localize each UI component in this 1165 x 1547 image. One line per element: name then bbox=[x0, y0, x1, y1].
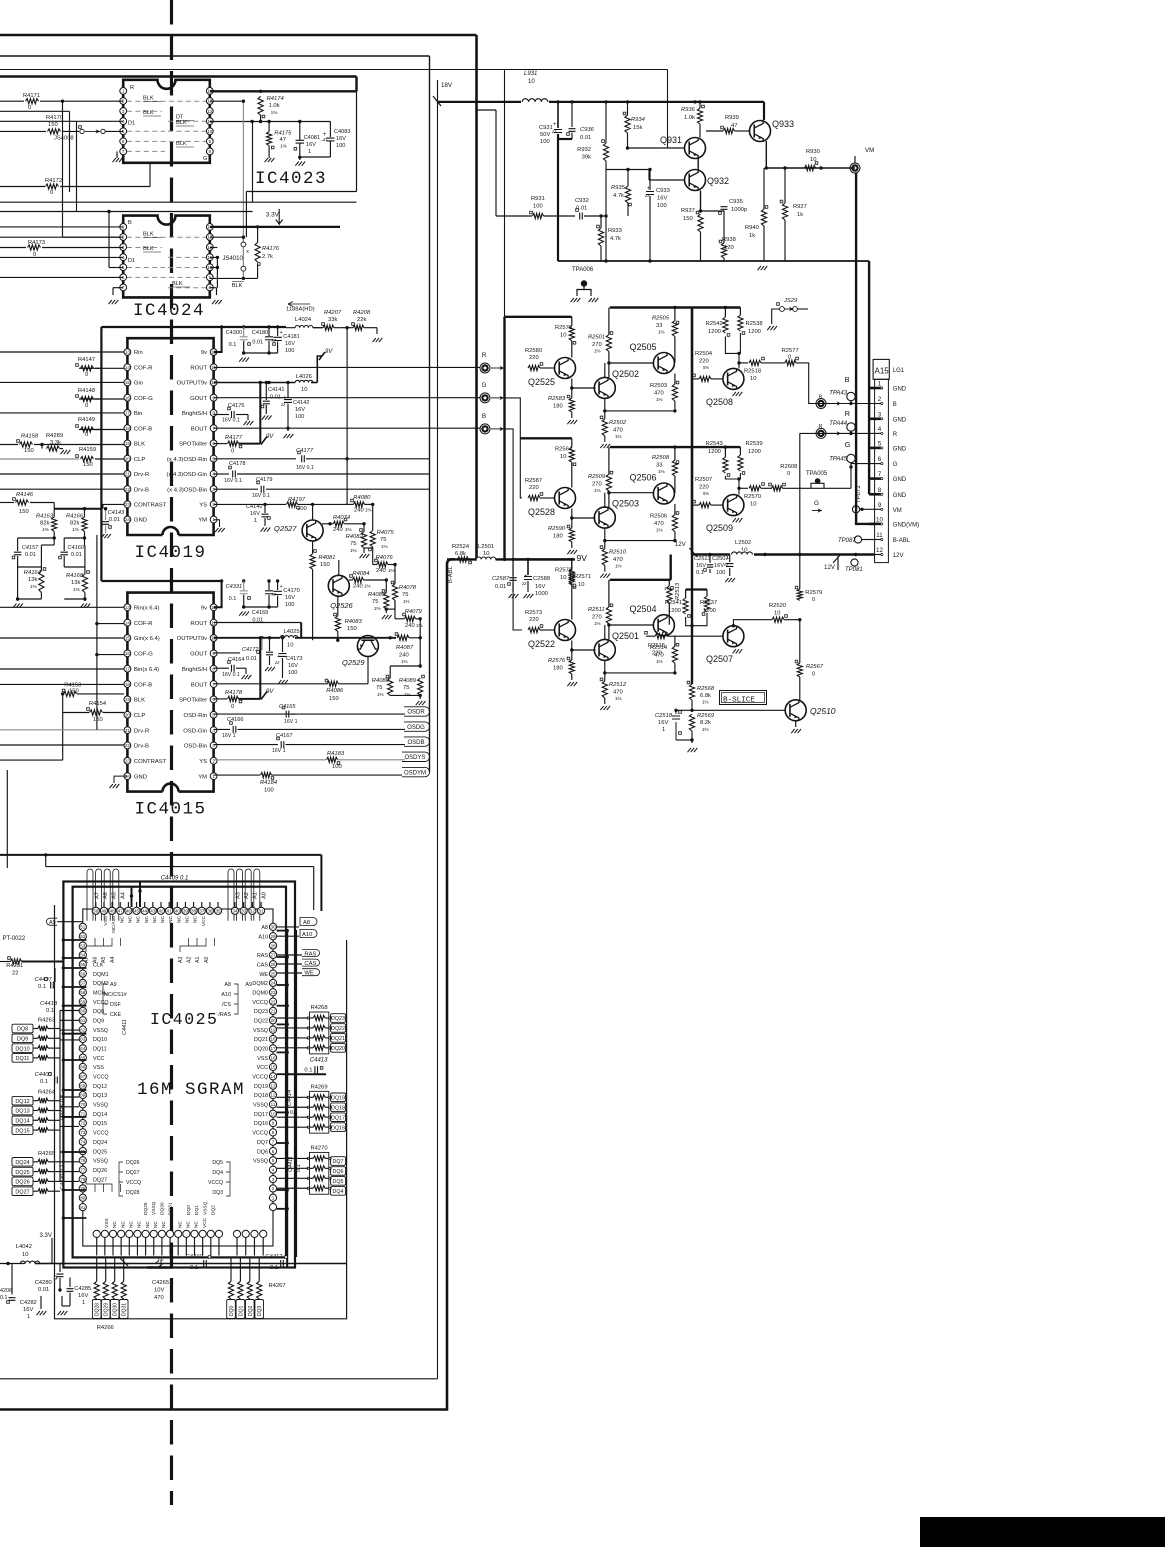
wire top bus drops bbox=[131, 887, 133, 907]
wire input bbox=[0, 351, 124, 353]
wire GOUT long wire bbox=[214, 397, 480, 399]
svg-text:C4181: C4181 bbox=[283, 334, 299, 340]
svg-text:GND: GND bbox=[134, 518, 147, 524]
svg-text:1%: 1% bbox=[374, 606, 381, 611]
svg-text:R2573: R2573 bbox=[525, 610, 542, 616]
svg-text:18: 18 bbox=[125, 682, 131, 687]
wire Q2526 collector link bbox=[338, 560, 340, 575]
svg-text:R4168: R4168 bbox=[66, 573, 84, 579]
coax VM bbox=[850, 163, 860, 173]
IC4015 pin 5 OSD-Rin bbox=[210, 711, 217, 718]
svg-text:33: 33 bbox=[656, 323, 662, 329]
wire row top Q2522 bbox=[513, 558, 572, 560]
svg-text:1: 1 bbox=[662, 727, 665, 733]
svg-text:Q2529: Q2529 bbox=[342, 658, 365, 667]
svg-text:1%: 1% bbox=[388, 568, 395, 573]
tag DQ14 bbox=[12, 1116, 33, 1125]
IC4019 pin 22 Drv-B bbox=[124, 486, 131, 493]
svg-text:YS: YS bbox=[199, 503, 207, 509]
svg-text:23: 23 bbox=[270, 990, 276, 995]
IC4023 pin 7 bbox=[120, 148, 127, 155]
svg-text:75: 75 bbox=[376, 685, 382, 691]
IC4015 pin 17 Bin(x 6.4) bbox=[124, 665, 131, 672]
resistor R4079 bbox=[405, 616, 416, 621]
svg-text:470: 470 bbox=[613, 689, 623, 695]
wire driver base wire bbox=[609, 624, 654, 626]
svg-text:(x 4.3)OSD-Gin: (x 4.3)OSD-Gin bbox=[167, 472, 208, 478]
svg-text:R4266: R4266 bbox=[97, 1325, 114, 1331]
IC4015 pin 13 Rin(x 6.4) bbox=[124, 604, 131, 611]
svg-text:DQ20: DQ20 bbox=[331, 1046, 345, 1052]
svg-text:OSDB: OSDB bbox=[407, 740, 424, 746]
svg-text:220: 220 bbox=[529, 485, 539, 491]
svg-text:240: 240 bbox=[333, 527, 343, 533]
svg-text:16V 1: 16V 1 bbox=[272, 748, 286, 754]
svg-text:Q2503: Q2503 bbox=[612, 499, 639, 509]
ground R4085 R4078 bbox=[386, 608, 395, 610]
svg-text:7: 7 bbox=[122, 149, 125, 154]
svg-text:DQ13: DQ13 bbox=[93, 1093, 107, 1099]
svg-text:9v: 9v bbox=[201, 606, 207, 612]
svg-text:DQ12: DQ12 bbox=[15, 1099, 29, 1105]
svg-text:NC: NC bbox=[185, 915, 191, 922]
svg-text:C4157: C4157 bbox=[22, 545, 39, 551]
IC4015 pin 21 Drv-R bbox=[124, 727, 131, 734]
transistor Q2503 bbox=[594, 507, 615, 528]
svg-text:0: 0 bbox=[33, 252, 36, 258]
svg-text:1%: 1% bbox=[615, 434, 622, 439]
IC4024 pin 10 bbox=[206, 264, 213, 271]
svg-text:A9: A9 bbox=[110, 982, 117, 988]
svg-text:TPA44: TPA44 bbox=[829, 421, 848, 427]
svg-text:R2503: R2503 bbox=[650, 383, 667, 389]
wire Q2525 emitter out bbox=[572, 387, 596, 389]
resistor R4078 bbox=[392, 584, 397, 601]
svg-text:CAS: CAS bbox=[257, 962, 268, 968]
svg-text:OSDYS: OSDYS bbox=[404, 755, 425, 761]
IC4024 pin 7 bbox=[120, 284, 127, 291]
svg-text:R4146: R4146 bbox=[16, 492, 34, 498]
wire Q931 collector to rail bbox=[693, 100, 696, 103]
svg-text:NC: NC bbox=[152, 915, 158, 922]
wire OUTPUT9v thick into Q2529 bbox=[214, 637, 283, 639]
svg-text:0.1: 0.1 bbox=[38, 984, 46, 990]
connector A15 body bbox=[875, 379, 889, 562]
svg-text:C4083: C4083 bbox=[334, 129, 350, 135]
tags address A3-A0 bbox=[228, 869, 234, 921]
wire bottom thick gnd runs bbox=[35, 1263, 347, 1265]
resistor array R4264 element bbox=[38, 1098, 48, 1103]
transistor Q2508 output bbox=[723, 368, 744, 389]
svg-text:A2: A2 bbox=[187, 957, 193, 963]
svg-text:DQ19: DQ19 bbox=[254, 1084, 268, 1090]
svg-text:R4076: R4076 bbox=[376, 555, 394, 561]
svg-text:21: 21 bbox=[125, 472, 131, 477]
svg-text:1200: 1200 bbox=[668, 608, 681, 614]
svg-text:16V: 16V bbox=[285, 595, 295, 601]
svg-text:47: 47 bbox=[118, 909, 124, 914]
resistor array R4265 element bbox=[38, 1159, 48, 1164]
tag DQ27 bbox=[12, 1187, 33, 1196]
svg-text:R4163: R4163 bbox=[36, 514, 54, 520]
svg-text:DQ8: DQ8 bbox=[17, 1027, 28, 1033]
svg-text:13: 13 bbox=[125, 350, 131, 355]
svg-text:16: 16 bbox=[125, 395, 131, 400]
svg-text:5: 5 bbox=[272, 1158, 275, 1163]
svg-text:DQ3: DQ3 bbox=[257, 1306, 263, 1317]
wire RGB block left edge bbox=[503, 317, 505, 560]
svg-text:DQ17: DQ17 bbox=[254, 1112, 268, 1118]
svg-text:0: 0 bbox=[812, 672, 815, 678]
wire IC4023 left loop wires bbox=[62, 101, 64, 237]
svg-text:42: 42 bbox=[158, 909, 164, 914]
svg-text:R4147: R4147 bbox=[78, 357, 95, 363]
svg-text:470: 470 bbox=[654, 391, 664, 397]
tag DQ4 bbox=[331, 1187, 346, 1196]
svg-text:C4331: C4331 bbox=[226, 584, 242, 590]
svg-text:1: 1 bbox=[254, 518, 257, 524]
wire collector rail bbox=[610, 446, 741, 448]
svg-text:150: 150 bbox=[320, 562, 330, 568]
svg-text:240: 240 bbox=[354, 508, 364, 514]
internal A3-A0 stub bbox=[180, 938, 215, 952]
tag DQ5 bbox=[331, 1177, 346, 1186]
IC4024 pin 1 bbox=[120, 224, 127, 231]
svg-text:1%: 1% bbox=[381, 544, 388, 549]
svg-text:1: 1 bbox=[27, 1314, 30, 1320]
svg-text:VCCQ: VCCQ bbox=[252, 1075, 268, 1081]
svg-text:R2504: R2504 bbox=[695, 351, 713, 357]
resistor array R4264 element bbox=[38, 1118, 48, 1123]
resistor R4088 bbox=[388, 678, 393, 695]
svg-text:48: 48 bbox=[110, 909, 116, 914]
IC4015 pin 4 OSD-Gin bbox=[210, 727, 217, 734]
svg-text:VCC: VCC bbox=[93, 1056, 104, 1062]
svg-text:15: 15 bbox=[125, 636, 131, 641]
svg-text:16V: 16V bbox=[78, 1293, 88, 1299]
svg-text:C4411: C4411 bbox=[122, 1019, 128, 1035]
transistor Q933 bbox=[750, 121, 771, 142]
svg-text:1%: 1% bbox=[656, 659, 663, 664]
svg-text:R4074: R4074 bbox=[333, 515, 350, 521]
svg-text:55: 55 bbox=[80, 962, 86, 967]
wire B route down bbox=[505, 429, 523, 630]
svg-text:10: 10 bbox=[750, 502, 756, 508]
svg-text:6: 6 bbox=[272, 1149, 275, 1154]
wire OSD-Gin row bbox=[214, 473, 229, 475]
svg-text:R4170: R4170 bbox=[46, 115, 63, 121]
svg-text:150: 150 bbox=[329, 696, 339, 702]
svg-text:BLK: BLK bbox=[143, 110, 154, 116]
svg-text:zz: zz bbox=[322, 136, 328, 141]
svg-text:C4300: C4300 bbox=[226, 330, 242, 336]
svg-text:L931: L931 bbox=[524, 71, 537, 77]
svg-text:C933: C933 bbox=[656, 188, 670, 194]
svg-text:C936: C936 bbox=[580, 127, 595, 133]
IC4015 pin 18 COF-B bbox=[124, 681, 131, 688]
resistor R4083 bbox=[335, 616, 340, 632]
svg-text:60: 60 bbox=[80, 1009, 86, 1014]
svg-text:1%: 1% bbox=[345, 527, 352, 532]
svg-text:R4164: R4164 bbox=[24, 570, 41, 576]
resistor R4075 bbox=[370, 531, 375, 548]
svg-text:11: 11 bbox=[876, 532, 883, 539]
svg-text:C4165: C4165 bbox=[279, 704, 296, 710]
svg-text:DQ21: DQ21 bbox=[331, 1036, 345, 1042]
svg-text:9: 9 bbox=[272, 1121, 275, 1126]
svg-text:R2509: R2509 bbox=[588, 474, 606, 480]
wire pin14 rail bbox=[210, 90, 357, 92]
svg-text:1%: 1% bbox=[594, 488, 601, 493]
svg-text:R4148: R4148 bbox=[78, 388, 95, 394]
svg-text:1: 1 bbox=[122, 89, 125, 94]
svg-text:Q2525: Q2525 bbox=[528, 377, 555, 387]
wire Q2528 emitter out bbox=[572, 517, 596, 519]
svg-text:PT-0022: PT-0022 bbox=[3, 936, 26, 942]
svg-text:40: 40 bbox=[175, 909, 181, 914]
svg-text:R4264: R4264 bbox=[38, 1090, 56, 1096]
wire IC4024 pin1 feed bbox=[0, 226, 123, 228]
svg-text:DQ23: DQ23 bbox=[331, 1016, 345, 1022]
svg-text:C4160: C4160 bbox=[68, 545, 85, 551]
resistor R4082 bbox=[361, 532, 366, 549]
svg-text:1k: 1k bbox=[749, 233, 755, 239]
wire input bbox=[0, 381, 124, 383]
IC IC4015 body bbox=[127, 593, 213, 792]
svg-text:0.01: 0.01 bbox=[38, 1287, 49, 1293]
svg-text:R4154: R4154 bbox=[89, 701, 107, 707]
svg-text:18V: 18V bbox=[441, 82, 453, 89]
svg-text:BLK: BLK bbox=[143, 246, 154, 252]
IC4023 pin 5 bbox=[120, 128, 127, 135]
svg-text:WE: WE bbox=[259, 972, 268, 978]
svg-text:R4079: R4079 bbox=[405, 609, 423, 615]
svg-text:DQ2: DQ2 bbox=[248, 1306, 254, 1317]
svg-text:16V: 16V bbox=[288, 663, 298, 669]
wire Q2507 collector to R2520 bbox=[733, 620, 772, 626]
IC4019 pin 2 YS bbox=[210, 501, 217, 508]
resistor array R4265 element bbox=[38, 1179, 48, 1184]
svg-text:22: 22 bbox=[125, 487, 131, 492]
svg-text:32: 32 bbox=[250, 909, 256, 914]
svg-text:VCC: VCC bbox=[202, 1217, 208, 1228]
svg-text:R927: R927 bbox=[793, 204, 807, 210]
svg-text:9v: 9v bbox=[201, 350, 207, 356]
IC4024 pin8 ground bbox=[216, 288, 218, 295]
IC4015 pin 11 ROUT bbox=[210, 619, 217, 626]
svg-text:C4081: C4081 bbox=[304, 135, 320, 141]
svg-text:DQ20: DQ20 bbox=[254, 1047, 268, 1053]
bottom resistor row R4267 bbox=[228, 1281, 233, 1299]
svg-text:CLK: CLK bbox=[93, 962, 104, 968]
IC4019 pin 3 (x 4.3)OSD-Bin bbox=[210, 486, 217, 493]
svg-text:R2510: R2510 bbox=[609, 550, 627, 556]
svg-text:14: 14 bbox=[125, 365, 131, 370]
svg-text:COF-G: COF-G bbox=[134, 396, 153, 402]
test point TP087 bbox=[854, 536, 861, 543]
svg-text:R4158: R4158 bbox=[21, 434, 39, 440]
svg-text:JS4010: JS4010 bbox=[223, 256, 244, 262]
wire ROUT IC4015 bbox=[214, 622, 302, 624]
svg-text:NC: NC bbox=[120, 1221, 126, 1228]
svg-text:8.2k: 8.2k bbox=[700, 720, 711, 726]
svg-text:BLK: BLK bbox=[176, 141, 187, 147]
svg-text:OSDG: OSDG bbox=[407, 725, 425, 731]
svg-text:DQM1: DQM1 bbox=[93, 972, 109, 978]
tag DQ11 bbox=[12, 1054, 33, 1063]
wire 9v slash bbox=[319, 352, 325, 360]
svg-text:BOUT: BOUT bbox=[191, 682, 208, 688]
svg-text:23: 23 bbox=[125, 502, 131, 507]
IC4015 pin 6 SPOTkiller bbox=[210, 696, 217, 703]
svg-text:8: 8 bbox=[878, 487, 882, 494]
svg-text:A10: A10 bbox=[258, 934, 268, 940]
svg-text:0.1: 0.1 bbox=[696, 570, 704, 576]
svg-text:1: 1 bbox=[82, 1300, 85, 1306]
svg-text:R931: R931 bbox=[531, 196, 545, 202]
IC IC4023 body bbox=[123, 80, 210, 163]
svg-text:Q2504: Q2504 bbox=[630, 604, 657, 614]
svg-text:A15: A15 bbox=[875, 367, 890, 376]
IC IC4019 body bbox=[127, 338, 213, 535]
svg-text:270: 270 bbox=[592, 614, 602, 620]
svg-text:25: 25 bbox=[270, 971, 276, 976]
svg-text:62: 62 bbox=[80, 1027, 86, 1032]
svg-text:10V: 10V bbox=[154, 1288, 164, 1294]
resistor R4085 bbox=[384, 593, 389, 610]
svg-text:GND: GND bbox=[893, 493, 907, 499]
svg-text:46: 46 bbox=[126, 909, 132, 914]
svg-text:180: 180 bbox=[553, 534, 563, 540]
svg-text:DQ0: DQ0 bbox=[229, 1306, 235, 1317]
svg-text:240: 240 bbox=[405, 623, 415, 629]
svg-text:1.0k: 1.0k bbox=[684, 115, 695, 121]
resistor R4076 bbox=[377, 562, 388, 567]
wire IC4024 left feeds bbox=[0, 236, 123, 238]
svg-text:R936: R936 bbox=[681, 107, 696, 113]
svg-text:NC: NC bbox=[127, 915, 133, 922]
svg-text:R4269: R4269 bbox=[311, 1084, 328, 1090]
wire driver base wire bbox=[609, 362, 654, 364]
svg-text:77: 77 bbox=[80, 1167, 86, 1172]
IC4019 pin 5 (x 4.3)OSD-Rin bbox=[210, 455, 217, 462]
black corner block bbox=[920, 1517, 1165, 1547]
svg-text:GND: GND bbox=[893, 477, 907, 483]
svg-text:VCCQ: VCCQ bbox=[126, 1180, 141, 1186]
svg-text:33: 33 bbox=[241, 909, 247, 914]
svg-text:GND: GND bbox=[893, 417, 907, 423]
svg-text:DQ8: DQ8 bbox=[93, 1009, 104, 1015]
tag DQ23 bbox=[331, 1014, 346, 1023]
svg-text:Q2510: Q2510 bbox=[810, 706, 836, 716]
svg-text:3.3V: 3.3V bbox=[266, 212, 280, 219]
transistor Q2527 bbox=[302, 520, 323, 541]
vertical dashed fold line bbox=[170, 0, 173, 1505]
svg-text:DQM2: DQM2 bbox=[252, 981, 268, 987]
wire 12V rail bbox=[692, 553, 875, 555]
IC4019 pin 17 Bin bbox=[124, 410, 131, 417]
wire 3.3V rail from IC4024 pin14 bbox=[210, 226, 340, 228]
svg-text:NC: NC bbox=[112, 1221, 118, 1228]
svg-text:R4171: R4171 bbox=[23, 93, 40, 99]
svg-text:R4153: R4153 bbox=[64, 683, 81, 689]
wire input bbox=[0, 412, 124, 414]
svg-text:220: 220 bbox=[529, 617, 539, 623]
svg-text:0.01: 0.01 bbox=[495, 584, 506, 590]
svg-text:Q931: Q931 bbox=[660, 135, 682, 145]
svg-text:R2576: R2576 bbox=[548, 658, 566, 664]
svg-text:DQ16: DQ16 bbox=[254, 1121, 268, 1127]
svg-text:VSSQ: VSSQ bbox=[253, 1159, 268, 1165]
svg-text:1k: 1k bbox=[797, 212, 803, 218]
resistor R4074 bbox=[333, 521, 344, 526]
svg-text:DQ25: DQ25 bbox=[15, 1170, 29, 1176]
svg-text:A0: A0 bbox=[204, 957, 210, 963]
svg-text:R935: R935 bbox=[611, 185, 626, 191]
svg-text:0.01: 0.01 bbox=[109, 517, 120, 523]
svg-text:DQ16: DQ16 bbox=[331, 1125, 345, 1131]
svg-text:R4175: R4175 bbox=[274, 131, 292, 137]
wire branch down from R4207 node bbox=[346, 328, 348, 505]
internal DQ26-DQ28 stub bbox=[86, 1178, 121, 1192]
svg-text:R4268: R4268 bbox=[311, 1005, 328, 1011]
IC4023 pin 4 bbox=[120, 118, 127, 125]
svg-text:16V 0.1: 16V 0.1 bbox=[222, 418, 240, 424]
svg-text:6: 6 bbox=[122, 139, 125, 144]
svg-text:D1: D1 bbox=[128, 258, 135, 264]
wire bottom thin return line bbox=[0, 1378, 438, 1380]
svg-text:SPOTkiller: SPOTkiller bbox=[179, 698, 207, 704]
svg-text:270: 270 bbox=[592, 342, 602, 348]
svg-text:DQ19: DQ19 bbox=[331, 1096, 345, 1102]
tag DQ16 bbox=[331, 1123, 346, 1132]
bus stubs right side bbox=[277, 930, 288, 932]
svg-text:Q2507: Q2507 bbox=[706, 654, 733, 664]
wire Q2527 collector link bbox=[312, 504, 314, 520]
tag OSDYM bbox=[402, 767, 430, 776]
svg-text:VCC: VCC bbox=[257, 1065, 268, 1071]
svg-text:NC: NC bbox=[168, 915, 174, 922]
svg-text:14: 14 bbox=[125, 620, 131, 625]
svg-text:GND: GND bbox=[134, 774, 147, 780]
svg-text:10: 10 bbox=[528, 79, 535, 85]
svg-text:C4409 0.1: C4409 0.1 bbox=[161, 876, 189, 882]
svg-text:75: 75 bbox=[403, 685, 409, 691]
svg-text:9: 9 bbox=[212, 651, 215, 656]
wire IC4015 left feeds bbox=[0, 683, 124, 685]
svg-text:NC: NC bbox=[160, 915, 166, 922]
svg-text:CONTRAST: CONTRAST bbox=[134, 759, 167, 765]
svg-text:82k: 82k bbox=[40, 521, 49, 527]
svg-text:150: 150 bbox=[48, 122, 58, 128]
transistor Q2504 bbox=[653, 615, 674, 636]
svg-text:C4410: C4410 bbox=[186, 1254, 204, 1260]
svg-text:19: 19 bbox=[125, 697, 131, 702]
svg-text:C4430 0.1: C4430 0.1 bbox=[60, 1165, 66, 1190]
coax input B bbox=[480, 424, 490, 434]
svg-text:C2588: C2588 bbox=[533, 576, 550, 582]
svg-text:IC4024: IC4024 bbox=[133, 301, 205, 321]
wire R2541/R2537 rail bbox=[686, 588, 707, 590]
svg-text:COF-R: COF-R bbox=[134, 621, 153, 627]
IC4019 pin 20 CLP bbox=[124, 455, 131, 462]
resistor R4163 bbox=[52, 517, 57, 532]
svg-text:OSD-Bin: OSD-Bin bbox=[184, 744, 207, 750]
IC4024 pin 8 bbox=[206, 284, 213, 291]
svg-text:29: 29 bbox=[270, 934, 276, 939]
connector A15 label box bbox=[873, 359, 889, 379]
coax input R bbox=[480, 363, 490, 373]
